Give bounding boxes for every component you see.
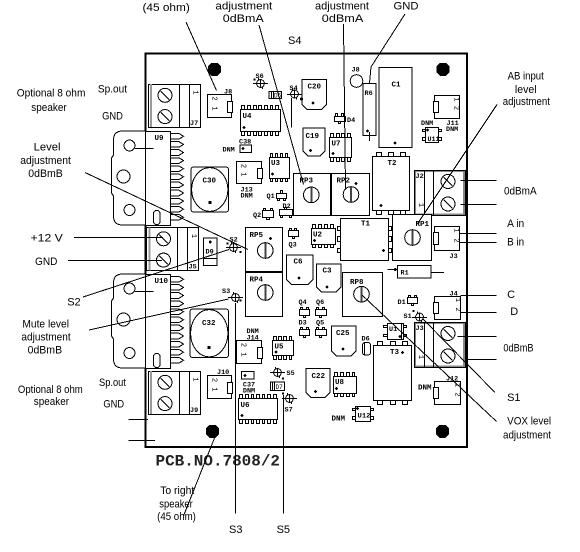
svg-text:1: 1 <box>452 228 460 232</box>
svg-text:DNM: DNM <box>418 385 432 393</box>
connector J3 (A/B in) <box>434 227 460 262</box>
svg-text:0dBmA: 0dBmA <box>504 186 537 198</box>
svg-text:B in: B in <box>507 237 524 249</box>
connector J3 (terminal block 0dBmB) <box>415 322 466 368</box>
wire C <box>461 295 497 297</box>
transformer T2 <box>373 153 410 215</box>
svg-text:Q5: Q5 <box>316 320 324 328</box>
svg-text:adjustment: adjustment <box>503 430 551 442</box>
capacitor C32 <box>190 309 229 358</box>
capacitor C22 <box>306 369 330 398</box>
connector J9 (terminal block) <box>149 371 201 415</box>
potentiometer RP5 <box>246 228 283 273</box>
callout wire to RP3 <box>259 25 304 185</box>
svg-text:1: 1 <box>210 106 218 110</box>
svg-text:RP8: RP8 <box>350 279 364 287</box>
svg-text:J7: J7 <box>190 120 198 128</box>
connector J10 <box>208 369 233 399</box>
capacitor C6 <box>287 255 314 285</box>
callout wire to mounting hole <box>184 438 215 516</box>
svg-text:U5: U5 <box>275 344 285 352</box>
svg-text:Optional 8 ohm: Optional 8 ohm <box>18 384 83 396</box>
svg-text:J3: J3 <box>416 325 424 333</box>
wire B in <box>459 242 496 244</box>
svg-text:VOX level: VOX level <box>507 416 551 428</box>
svg-text:2: 2 <box>452 106 460 110</box>
svg-text:Mute level: Mute level <box>22 319 69 331</box>
wire D <box>461 312 497 314</box>
transistor Q1 <box>267 191 287 202</box>
capacitor C37 (DNM) <box>242 372 256 396</box>
wire 0dBmB upper <box>458 336 497 338</box>
wire speaker lower <box>129 440 156 442</box>
svg-text:T1: T1 <box>361 221 371 229</box>
svg-text:adjustment: adjustment <box>215 1 272 13</box>
IC U5 <box>273 337 294 360</box>
svg-text:C22: C22 <box>312 373 326 381</box>
mounting hole bottom-left <box>206 425 219 438</box>
callout wire from S5 <box>283 395 285 514</box>
svg-text:2: 2 <box>453 392 461 396</box>
svg-text:0dBmB: 0dBmB <box>28 168 63 180</box>
svg-text:U4: U4 <box>243 113 253 121</box>
svg-text:C25: C25 <box>336 330 350 338</box>
transistor Q5 <box>316 320 327 338</box>
diode D5 <box>269 92 282 100</box>
potentiometer RP1 <box>393 215 432 261</box>
svg-text:1: 1 <box>416 355 424 359</box>
wire 0dBmA upper <box>461 180 497 182</box>
svg-text:S1: S1 <box>404 313 412 321</box>
svg-text:GND: GND <box>102 111 123 123</box>
capacitor C1 <box>379 68 412 148</box>
switch S6 <box>253 73 268 89</box>
svg-text:S3: S3 <box>229 524 242 536</box>
svg-text:J5: J5 <box>189 264 197 272</box>
svg-text:Optional 8 ohm: Optional 8 ohm <box>17 88 86 100</box>
resistor R6 <box>363 84 376 142</box>
wire GND <box>68 260 162 262</box>
svg-text:1: 1 <box>416 203 424 207</box>
svg-text:2: 2 <box>452 238 460 242</box>
svg-text:C30: C30 <box>203 178 217 186</box>
svg-text:A in: A in <box>507 218 524 230</box>
wire A in <box>459 233 496 235</box>
svg-text:2: 2 <box>210 96 218 100</box>
svg-text:DNM: DNM <box>243 388 255 396</box>
svg-text:J8: J8 <box>352 67 360 75</box>
svg-text:1: 1 <box>191 90 199 94</box>
potentiometer RP4 <box>246 271 282 273</box>
svg-text:adjustment: adjustment <box>503 96 550 108</box>
connector J5 (terminal block) <box>147 228 199 272</box>
svg-text:Sp.out: Sp.out <box>98 84 127 96</box>
IC U3 <box>270 154 290 182</box>
callout wire to J8 <box>186 22 217 91</box>
svg-text:S4: S4 <box>288 35 301 47</box>
svg-text:1: 1 <box>210 387 218 391</box>
svg-text:DNM: DNM <box>446 126 458 134</box>
wire speaker upper <box>129 419 149 421</box>
svg-text:D: D <box>510 306 518 318</box>
callout wire to R6 <box>371 14 405 67</box>
IC U1 <box>384 323 407 340</box>
svg-text:S7: S7 <box>285 407 293 415</box>
svg-text:DNM: DNM <box>223 147 235 155</box>
svg-text:S5: S5 <box>277 524 290 536</box>
wire 0dBmB lower <box>465 359 496 361</box>
svg-text:adjustment: adjustment <box>315 1 369 13</box>
svg-text:U8: U8 <box>335 379 345 387</box>
svg-text:1: 1 <box>189 234 197 238</box>
svg-text:U10: U10 <box>155 278 169 286</box>
switch S3 (on board) <box>222 288 243 303</box>
svg-text:PCB.NO.7808/2: PCB.NO.7808/2 <box>156 453 281 471</box>
svg-text:Q6: Q6 <box>316 299 324 307</box>
power amplifier U9 <box>112 131 184 226</box>
svg-text:AB input: AB input <box>508 71 544 83</box>
svg-text:C: C <box>507 289 515 301</box>
svg-text:R1: R1 <box>401 270 409 278</box>
potentiometer RP2 <box>332 174 370 216</box>
svg-text:J2: J2 <box>416 173 424 181</box>
transistor Q3 <box>289 229 299 250</box>
svg-text:C1: C1 <box>392 82 402 90</box>
svg-text:U9: U9 <box>155 135 165 143</box>
svg-text:J3: J3 <box>450 253 458 261</box>
svg-text:C3: C3 <box>323 268 333 276</box>
svg-text:1: 1 <box>452 97 460 101</box>
svg-text:0dBmB: 0dBmB <box>28 345 63 357</box>
potentiometer RP3 <box>294 174 331 216</box>
svg-text:Q2: Q2 <box>253 212 261 220</box>
svg-text:D1: D1 <box>398 299 406 307</box>
svg-text:GND: GND <box>35 256 57 268</box>
connector J11 (DNM) <box>434 96 460 135</box>
board outline <box>146 54 468 448</box>
svg-text:RP5: RP5 <box>250 232 264 240</box>
svg-text:RP1: RP1 <box>416 221 430 229</box>
svg-text:To right: To right <box>160 485 194 497</box>
svg-text:0dBmB: 0dBmB <box>503 343 533 355</box>
svg-text:1: 1 <box>239 352 247 356</box>
svg-text:DNM: DNM <box>241 193 253 201</box>
transformer T3 <box>374 342 412 405</box>
svg-text:D4: D4 <box>347 117 355 125</box>
svg-text:0dBmA: 0dBmA <box>322 13 364 25</box>
callout wire from S1 <box>423 319 495 393</box>
svg-text:T3: T3 <box>390 349 400 357</box>
callout wire to RP2 <box>344 24 346 189</box>
svg-text:+12 V: +12 V <box>31 233 64 245</box>
svg-text:level: level <box>515 84 537 96</box>
capacitor C38 (DNM) <box>223 139 252 155</box>
capacitor C25 <box>332 326 357 356</box>
svg-text:Q1: Q1 <box>267 193 275 201</box>
svg-text:adjustment: adjustment <box>21 332 70 344</box>
diode D1 <box>398 296 418 308</box>
wire +12V <box>74 237 163 239</box>
svg-text:RP2: RP2 <box>337 178 351 186</box>
capacitor C3 <box>317 264 342 292</box>
power amplifier U10 <box>112 274 184 369</box>
svg-text:C32: C32 <box>202 320 216 328</box>
svg-text:D3: D3 <box>299 320 307 328</box>
diode D9 <box>204 238 218 266</box>
svg-text:speaker: speaker <box>34 396 69 408</box>
svg-text:U3: U3 <box>271 160 281 168</box>
svg-text:U12: U12 <box>358 413 371 421</box>
svg-text:0dBmA: 0dBmA <box>223 13 265 25</box>
switch S2 (on board) <box>226 237 242 254</box>
connector J14 (DNM) <box>237 328 263 364</box>
svg-text:(45 ohm): (45 ohm) <box>157 511 196 523</box>
diode D2 <box>280 203 293 218</box>
transistor Q2 <box>253 209 274 221</box>
svg-text:Sp.out: Sp.out <box>99 377 126 389</box>
switch S5 (on board) <box>270 367 295 380</box>
mounting hole top-left <box>208 63 221 76</box>
connector J12 (DNM) <box>418 376 461 405</box>
svg-text:J9: J9 <box>190 407 198 415</box>
callout wire from RP8 <box>362 295 497 422</box>
callout wire to RP5 <box>85 173 248 250</box>
capacitor C20 <box>302 80 327 110</box>
diode D7 <box>271 382 285 391</box>
mounting hole bottom-right <box>436 425 449 438</box>
diode D3 <box>299 320 310 338</box>
connector J8 <box>208 89 233 118</box>
diode D6 <box>362 336 371 356</box>
IC U11 (DNM) <box>421 120 442 144</box>
callout wire to S3 <box>89 299 229 330</box>
diode D4 <box>335 114 356 126</box>
IC U7 <box>330 134 352 162</box>
svg-text:U7: U7 <box>332 141 341 149</box>
jumper J8 (circle pad) <box>350 67 363 88</box>
svg-text:DNM: DNM <box>332 416 346 424</box>
svg-text:Level: Level <box>34 142 61 154</box>
switch S4 (on board) <box>287 85 302 128</box>
wire 0dBmA lower <box>461 204 497 206</box>
capacitor C30 <box>191 167 229 212</box>
svg-text:D7: D7 <box>276 384 284 391</box>
mounting hole top-right <box>436 63 449 76</box>
svg-text:S1: S1 <box>507 392 520 404</box>
svg-text:U11: U11 <box>428 136 440 144</box>
connector J13 (DNM) <box>237 162 263 201</box>
svg-text:2: 2 <box>239 343 247 347</box>
svg-text:Q3: Q3 <box>289 242 297 250</box>
connector J7 (terminal block) <box>149 84 201 128</box>
capacitor C19 <box>303 128 325 156</box>
potentiometer RP8 <box>343 273 383 317</box>
IC U2 <box>312 225 336 248</box>
connector J2 (terminal block 0dBmA) <box>415 170 466 216</box>
svg-text:Q4: Q4 <box>299 299 307 307</box>
transistor Q6 <box>316 299 327 318</box>
svg-text:speaker: speaker <box>31 102 67 114</box>
svg-text:C6: C6 <box>294 259 304 267</box>
connector J4 <box>434 291 462 320</box>
svg-text:U6: U6 <box>241 402 251 410</box>
svg-text:GND: GND <box>394 1 419 13</box>
IC U4 <box>241 106 281 136</box>
svg-text:T2: T2 <box>388 160 398 168</box>
svg-text:1: 1 <box>239 172 247 176</box>
svg-text:C20: C20 <box>308 84 322 92</box>
svg-text:S2: S2 <box>67 297 80 309</box>
callout wire to S2 <box>83 250 229 298</box>
svg-text:S3: S3 <box>222 288 230 296</box>
callout wire from S3 <box>235 303 237 514</box>
svg-text:1: 1 <box>453 298 461 302</box>
svg-text:adjustment: adjustment <box>20 155 71 167</box>
switch S7 (on board) <box>282 392 297 414</box>
svg-text:R6: R6 <box>365 90 373 98</box>
svg-text:GND: GND <box>103 399 124 411</box>
callout wire to RP1 <box>418 105 497 224</box>
svg-text:S5: S5 <box>287 370 295 378</box>
svg-text:RP4: RP4 <box>250 277 264 285</box>
resistor R1 <box>388 266 445 279</box>
svg-text:DNM: DNM <box>421 120 433 128</box>
svg-text:C19: C19 <box>306 133 320 141</box>
transistor Q4 <box>299 299 310 318</box>
transformer T1 <box>338 219 392 261</box>
svg-text:2: 2 <box>239 164 247 168</box>
IC U12 (DNM) <box>332 407 374 424</box>
switch S1 (on board) <box>404 310 427 323</box>
svg-text:1: 1 <box>191 377 199 381</box>
IC U6 <box>239 395 278 424</box>
IC U8 <box>334 373 357 397</box>
svg-text:2: 2 <box>210 378 218 382</box>
svg-text:(45 ohm): (45 ohm) <box>143 2 190 14</box>
svg-text:U2: U2 <box>313 232 323 240</box>
svg-text:2: 2 <box>453 307 461 311</box>
